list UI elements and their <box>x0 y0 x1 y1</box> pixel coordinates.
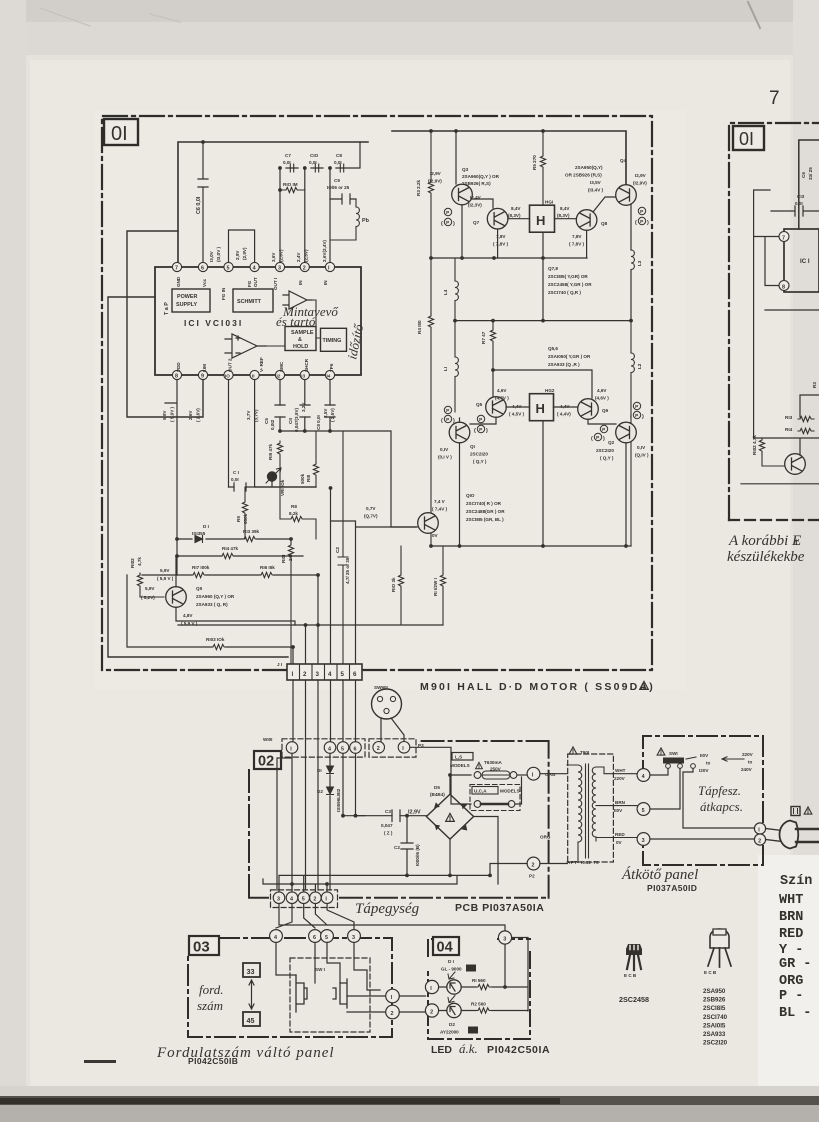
transistor Q11 <box>166 587 187 608</box>
connector B4-3 <box>498 931 511 944</box>
transistor Q11r <box>785 454 806 475</box>
pin 4 <box>250 262 259 271</box>
svg-text:SCHMITT: SCHMITT <box>237 299 262 305</box>
connector PCB dashed box <box>271 890 338 908</box>
switch SW1 board dashed box <box>290 958 370 1032</box>
wire right rail <box>799 140 819 229</box>
svg-text:I2,9V: I2,9V <box>635 173 647 178</box>
svg-text:3: 3 <box>277 897 280 903</box>
svg-text:R5 270: R5 270 <box>532 155 537 170</box>
svg-text:7: 7 <box>782 235 785 241</box>
svg-text:RI03 IOk: RI03 IOk <box>206 637 225 642</box>
svg-text:4,6V: 4,6V <box>597 388 607 393</box>
svg-text:45: 45 <box>470 1029 476 1034</box>
wire J1 columns <box>293 488 356 664</box>
svg-text:): ) <box>642 414 644 420</box>
svg-text:HG2: HG2 <box>545 388 555 393</box>
svg-text:&: & <box>298 337 302 343</box>
svg-text:R2 560: R2 560 <box>471 1002 486 1007</box>
svg-text:4: 4 <box>274 935 277 941</box>
connector W101-1 <box>286 742 298 754</box>
svg-text:3,6V: 3,6V <box>271 252 276 262</box>
svg-text:átkapcs.: átkapcs. <box>700 799 743 814</box>
capacitor C2 electrolytic <box>394 816 420 876</box>
svg-text:U,C,A: U,C,A <box>474 789 487 794</box>
svg-text:7: 7 <box>175 266 178 272</box>
capacitor C5 0.012 <box>264 405 285 430</box>
svg-text:BRN: BRN <box>615 800 626 805</box>
block 01 main frame <box>102 116 652 670</box>
svg-text:RI02: RI02 <box>130 558 135 568</box>
svg-text:2SCI8I5( Y,GR) OR: 2SCI8I5( Y,GR) OR <box>548 274 588 279</box>
svg-text:L,S: L,S <box>455 755 462 760</box>
resistor R1 1/2W <box>433 546 446 625</box>
svg-text:SAMPLE: SAMPLE <box>291 330 314 336</box>
svg-text:4: 4 <box>328 671 332 678</box>
bridge rectifier D5 <box>426 794 473 839</box>
svg-text:RIO 3k: RIO 3k <box>391 577 396 592</box>
wire R103 row <box>127 575 291 647</box>
svg-text:240V: 240V <box>741 767 753 772</box>
connector PCB-5 <box>298 892 310 904</box>
svg-text:RI4 47k: RI4 47k <box>222 546 239 551</box>
wire pin7 feed <box>127 231 203 417</box>
label 13.0V pin6 <box>209 246 221 262</box>
svg-text:RI7 I00k: RI7 I00k <box>192 565 210 570</box>
svg-text:04: 04 <box>437 940 453 956</box>
svg-text:ORG: ORG <box>779 974 803 989</box>
svg-text:250V: 250V <box>490 767 502 772</box>
svg-text:0I: 0I <box>739 129 754 149</box>
label Fordulatszam valto panel <box>156 1045 335 1061</box>
wire block03 inner <box>276 943 386 1013</box>
svg-text:2: 2 <box>532 862 535 868</box>
wire top rail left <box>178 142 368 262</box>
svg-text:( 7,4V ): ( 7,4V ) <box>432 507 448 512</box>
svg-text:OUT I: OUT I <box>273 278 278 290</box>
legend GR <box>779 957 811 972</box>
test point P pair right top <box>635 207 649 226</box>
label P1037A501D <box>647 883 697 893</box>
transistor Q1 <box>449 422 470 443</box>
label 12.9V Q3 <box>428 171 442 184</box>
label 0.7V <box>364 506 378 519</box>
svg-text:C6: C6 <box>801 172 806 178</box>
potentiometer VR1 10k <box>266 468 285 496</box>
svg-text:CII: CII <box>288 418 293 424</box>
connector PCB-3 <box>273 892 285 904</box>
svg-text:ford.: ford. <box>199 982 223 997</box>
diode D2 1S1596 <box>317 787 334 795</box>
svg-text:LED: LED <box>431 1044 452 1056</box>
capacitor C6r <box>801 167 813 180</box>
svg-text:2SA933 ( Q, R): 2SA933 ( Q, R) <box>196 602 228 607</box>
svg-text:2,6V: 2,6V <box>188 410 193 420</box>
connector T1 <box>527 767 556 780</box>
svg-text:MODELS: MODELS <box>500 789 520 794</box>
label idozito <box>344 322 366 360</box>
wire SW901 to P3 <box>381 718 404 741</box>
svg-text:5,9V: 5,9V <box>145 586 155 591</box>
svg-text:2SCI740 ( Q,R ): 2SCI740 ( Q,R ) <box>548 290 581 295</box>
resistor R9 680k <box>236 487 248 539</box>
label Q11 block <box>196 586 235 607</box>
pin 9 <box>198 370 207 379</box>
connector AP-2 <box>754 834 765 845</box>
svg-text:RI02 4,7k: RI02 4,7k <box>752 435 757 455</box>
wire pin10 column <box>229 380 317 487</box>
svg-text:I2: I2 <box>277 374 281 379</box>
resistor R13r <box>785 415 814 422</box>
svg-text:0,047(3,5V): 0,047(3,5V) <box>294 408 299 432</box>
svg-text:PI042C50IA: PI042C50IA <box>487 1044 550 1056</box>
svg-text:D I: D I <box>448 959 454 964</box>
legend BL <box>779 1006 811 1021</box>
svg-text:2,6V(2,4V): 2,6V(2,4V) <box>322 240 327 262</box>
connector PCB-1 <box>321 892 333 904</box>
label 3.6V pin3 <box>271 249 284 262</box>
junction bus F <box>278 429 332 433</box>
svg-text:MODELS: MODELS <box>450 763 470 768</box>
pin label Vcc <box>202 278 207 287</box>
label Q4 block <box>565 158 627 193</box>
svg-text:R8: R8 <box>291 504 297 509</box>
svg-text:RI3 39k: RI3 39k <box>243 529 260 534</box>
transistor Q3 <box>452 184 473 205</box>
svg-text:6: 6 <box>313 935 316 941</box>
resistor R18 500k <box>300 431 319 487</box>
svg-text:2SC2I20: 2SC2I20 <box>703 1040 728 1047</box>
svg-text:( 4,5V ): ( 4,5V ) <box>509 412 525 417</box>
svg-text:3: 3 <box>642 838 645 844</box>
wire Q8 to Q4 <box>587 197 615 258</box>
resistor R14 47k <box>220 546 239 559</box>
svg-text:V- REF: V- REF <box>259 357 264 372</box>
transistor Q7 <box>473 208 508 229</box>
svg-text:TIMING: TIMING <box>323 338 342 344</box>
svg-text:(Q,7V): (Q,7V) <box>364 514 378 519</box>
svg-text:I3,5V: I3,5V <box>590 180 602 185</box>
page number 7 <box>769 88 780 109</box>
svg-text:(: ( <box>635 220 637 226</box>
label 8.4V left <box>508 206 521 218</box>
label es tarto <box>276 314 316 329</box>
svg-text:D2: D2 <box>317 789 323 794</box>
wire Q7 emitter <box>498 229 543 321</box>
svg-text:Átkötő panel: Átkötő panel <box>621 866 698 883</box>
svg-text:2,9V: 2,9V <box>235 250 240 260</box>
svg-text:24k: 24k <box>288 553 293 561</box>
svg-text:( 5,2V): ( 5,2V) <box>141 595 155 600</box>
svg-text:Q3: Q3 <box>462 167 469 172</box>
label Tapegyseg <box>355 901 420 917</box>
legend WHT <box>779 893 803 908</box>
wire Q4 emitter <box>630 204 632 321</box>
connector B3-4 <box>270 930 283 943</box>
svg-text:( 4,4V): ( 4,4V) <box>557 412 571 417</box>
junction rail B <box>429 129 545 133</box>
pin label FG OUT <box>247 277 258 287</box>
pin 5 <box>224 262 233 271</box>
svg-text:C6 0,0I: C6 0,0I <box>196 196 202 214</box>
timing box <box>321 328 347 351</box>
svg-text:5I: 5I <box>468 967 472 972</box>
label D2 AY22000 <box>440 1022 478 1035</box>
wire bridge top <box>448 773 498 884</box>
svg-text:2: 2 <box>391 1011 394 1017</box>
pin label VDD <box>176 362 181 372</box>
svg-text:Q4: Q4 <box>620 158 627 163</box>
svg-text:IO/I6 or 25: IO/I6 or 25 <box>327 185 350 190</box>
resistor R2 560 <box>471 1002 492 1014</box>
svg-text:C7: C7 <box>285 153 291 158</box>
svg-text:P -: P - <box>779 989 803 1004</box>
svg-text:220V: 220V <box>742 752 754 757</box>
label P1042C501B <box>188 1056 238 1066</box>
pin 1 <box>325 262 334 271</box>
svg-text:L2: L2 <box>637 363 642 369</box>
power supply box U-sub <box>172 289 210 312</box>
legend ORG <box>779 974 803 989</box>
svg-text:I2,9V: I2,9V <box>408 810 421 816</box>
svg-text:SWI: SWI <box>669 751 678 756</box>
connector W101 dashed box <box>263 737 365 757</box>
svg-text:HOLD: HOLD <box>293 344 308 350</box>
svg-text:RI6 I5k: RI6 I5k <box>260 565 275 570</box>
svg-text:2SB926( R,S): 2SB926( R,S) <box>462 181 491 186</box>
wire Q3 base to Q7 <box>462 199 493 258</box>
svg-text:02: 02 <box>258 754 274 770</box>
svg-text:( 7,8V ): ( 7,8V ) <box>569 242 585 247</box>
wire rail D <box>455 320 631 322</box>
svg-text:(: ( <box>441 418 443 424</box>
svg-text:0I: 0I <box>111 123 128 145</box>
svg-text:4: 4 <box>253 266 256 272</box>
svg-text:( Q,Y ): ( Q,Y ) <box>600 456 614 461</box>
svg-text:2SCI740( R ) OR: 2SCI740( R ) OR <box>466 501 502 506</box>
svg-text:2SA960 (Q,Y ) OR: 2SA960 (Q,Y ) OR <box>196 594 235 599</box>
svg-text:WHT: WHT <box>779 893 803 908</box>
transistor Q10 <box>418 513 439 534</box>
block 01 right label box <box>733 126 764 150</box>
diode D1 1S1596 <box>317 766 334 774</box>
connector J1 <box>277 662 362 680</box>
transformer T901 dashed box <box>568 747 614 862</box>
svg-text:A korábbi E: A korábbi E <box>728 533 801 549</box>
svg-text:(4,7V ): (4,7V ) <box>495 396 509 401</box>
svg-text:2SB926: 2SB926 <box>703 997 726 1004</box>
label BRN 110V <box>614 800 626 813</box>
resistor R10 3k <box>391 546 404 625</box>
svg-text:I000/I6 (B): I000/I6 (B) <box>415 844 420 866</box>
label LED ak P1042C501A <box>431 1041 550 1056</box>
wire pcb to block03 <box>276 904 505 932</box>
junction rail E <box>429 544 628 548</box>
svg-text:(B4B4): (B4B4) <box>430 792 445 797</box>
svg-text:RI4: RI4 <box>785 427 793 432</box>
resistor R101 24k <box>281 539 294 664</box>
label D5 <box>430 785 445 797</box>
svg-text:(: ( <box>474 428 476 434</box>
svg-text:(2,9V): (2,9V) <box>242 247 247 260</box>
svg-text:C5: C5 <box>264 418 269 424</box>
svg-text:( 7,8V ): ( 7,8V ) <box>493 242 509 247</box>
svg-text:5,9V: 5,9V <box>160 568 170 573</box>
pin r7 <box>779 232 789 242</box>
svg-text:R4 I80: R4 I80 <box>417 320 422 334</box>
coil L2 <box>631 321 642 546</box>
label 5.9V pin8 <box>162 406 175 422</box>
transistor Q5 <box>476 397 506 418</box>
svg-text:0V: 0V <box>616 840 623 845</box>
svg-text:( 2,5V): ( 2,5V) <box>330 408 335 422</box>
svg-text:I3: I3 <box>301 374 305 379</box>
svg-text:II: II <box>252 374 255 379</box>
svg-text:DI: DI <box>317 768 322 773</box>
label Q5-6 types <box>548 346 591 367</box>
wire bus 815 <box>343 815 427 817</box>
svg-text:2SAI050( Y,GR ) OR: 2SAI050( Y,GR ) OR <box>548 354 591 359</box>
svg-text:C2: C2 <box>394 845 400 850</box>
pin label SMC <box>279 361 284 372</box>
jumper UCA models <box>451 775 522 811</box>
svg-text:D5: D5 <box>434 785 440 790</box>
diode D1 1S1355 <box>192 524 209 543</box>
resistor R16 15k <box>259 565 275 578</box>
schmitt box <box>233 289 273 312</box>
svg-text:IN: IN <box>323 280 328 285</box>
block 04 label box <box>433 937 459 956</box>
svg-text:): ) <box>603 436 605 442</box>
connector B4-1 <box>425 980 438 993</box>
junction C6 top <box>201 140 205 144</box>
svg-text:5: 5 <box>325 935 328 941</box>
svg-text:to: to <box>748 760 753 765</box>
warning in bridge <box>446 813 455 821</box>
pin label GND <box>176 276 181 287</box>
svg-text:9: 9 <box>201 374 204 380</box>
test point P pair mid left <box>441 406 455 424</box>
svg-text:(I2,9V): (I2,9V) <box>633 181 647 186</box>
capacitor C2 4.7 <box>335 431 350 664</box>
IC1 VC1031 body <box>155 267 361 375</box>
block 04 frame <box>428 939 530 1039</box>
svg-text:2: 2 <box>303 266 306 272</box>
svg-text:CIO: CIO <box>310 153 319 158</box>
svg-text:T90I: T90I <box>580 750 589 755</box>
connector W101-5 <box>337 742 349 754</box>
svg-text:CI3: CI3 <box>797 194 805 199</box>
svg-text:( Q,Y ): ( Q,Y ) <box>473 459 487 464</box>
svg-text:0,IV: 0,IV <box>637 445 646 450</box>
svg-text:4: 4 <box>290 897 293 903</box>
junction bus815 <box>341 814 409 818</box>
wire pin5-pin4 loop <box>229 230 255 262</box>
svg-text:SMC: SMC <box>279 361 284 372</box>
svg-text:0,0I: 0,0I <box>334 160 342 165</box>
label APT-1042-70 <box>567 860 599 865</box>
svg-text:(I2,3V): (I2,3V) <box>468 203 482 208</box>
svg-text:7,4 V: 7,4 V <box>434 499 446 504</box>
junction bus875 <box>290 874 492 886</box>
svg-text:APT- I042-70: APT- I042-70 <box>567 860 599 865</box>
wire col A <box>277 754 365 891</box>
legend Y <box>779 943 803 958</box>
svg-text:(0,I V ): (0,I V ) <box>438 455 452 460</box>
svg-text:BRN: BRN <box>779 910 803 925</box>
package 2SC2458 <box>624 944 642 978</box>
wire pin12 column <box>280 380 330 431</box>
svg-text:L3: L3 <box>637 260 642 266</box>
wire rail E <box>431 545 631 547</box>
legend RED <box>779 927 803 942</box>
wire row D1/R13 <box>142 539 318 575</box>
svg-text:2SCI8I5 (GR, BL ): 2SCI8I5 (GR, BL ) <box>466 517 504 522</box>
svg-text:2: 2 <box>758 838 761 844</box>
svg-text:IN: IN <box>298 280 303 285</box>
svg-text:3: 3 <box>503 936 506 942</box>
svg-text:4,6V: 4,6V <box>497 388 507 393</box>
svg-text:RIO IM: RIO IM <box>283 182 298 187</box>
pin 13 <box>300 370 309 379</box>
svg-text:2SAI0I5: 2SAI0I5 <box>703 1022 726 1029</box>
svg-text:T630mA: T630mA <box>484 760 503 765</box>
svg-text:I: I <box>292 671 294 678</box>
resistor R8 8.2k <box>280 487 316 539</box>
wire pin8 column <box>165 380 177 575</box>
svg-text:RED: RED <box>615 832 625 837</box>
label 2.6V pin9 <box>188 408 201 422</box>
svg-text:2: 2 <box>313 897 316 903</box>
resistor R17 100k <box>191 565 210 578</box>
svg-text:to: to <box>706 761 711 766</box>
label 4.8V Q11 <box>181 613 198 626</box>
svg-text:3: 3 <box>352 935 355 941</box>
junction rows <box>175 537 293 558</box>
svg-text:PI042C50IB: PI042C50IB <box>188 1056 238 1066</box>
svg-text:6: 6 <box>354 746 357 752</box>
connector B4-2 <box>425 1004 438 1017</box>
label 220V to 240V <box>741 752 754 772</box>
label 1S1596LB12 <box>336 788 341 812</box>
legend BRN <box>779 910 803 925</box>
label 4.4V Q5 <box>509 404 525 417</box>
capacitor C9 <box>327 178 356 204</box>
pin label TP6 <box>329 363 334 372</box>
svg-text:OUT 2: OUT 2 <box>228 358 233 372</box>
svg-text:(: ( <box>441 221 443 227</box>
wire T2 return <box>490 774 567 876</box>
transistor Q6 <box>578 399 609 420</box>
connector PCB-2 <box>310 892 322 904</box>
svg-text:4,7k: 4,7k <box>137 557 142 566</box>
wire power left loop <box>108 297 288 657</box>
svg-text:2SA950: 2SA950 <box>703 988 726 995</box>
wire cap row to rail <box>286 142 360 168</box>
connector W101-6 <box>350 742 362 754</box>
svg-text:R3: R3 <box>812 382 817 388</box>
connector PCB-4 <box>286 892 298 904</box>
svg-text:M90I HALL D·D MOTOR ( SS09: M90I HALL D·D MOTOR ( SS09DA) <box>420 681 655 693</box>
svg-text:Tápfesz.: Tápfesz. <box>698 783 741 798</box>
svg-text:QI: QI <box>470 444 475 449</box>
label 12.4V Q3 <box>468 195 482 208</box>
svg-text:ISI596LBI2: ISI596LBI2 <box>336 788 341 812</box>
svg-text:3,7V: 3,7V <box>246 410 251 420</box>
pin 10 <box>224 370 233 379</box>
svg-text:H: H <box>536 213 545 228</box>
capacitor C3 0.047 <box>381 809 400 836</box>
